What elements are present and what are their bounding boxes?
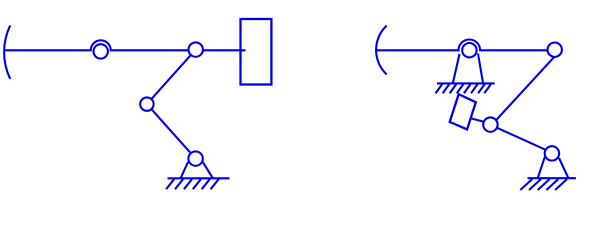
mechanism 1: joint circle C (140, 97, 153, 110)
mechanism 1: pivot circle A (94, 44, 108, 58)
mechanism 1: slider block rectangle (241, 19, 272, 85)
mechanism 2 (right): input rotation arc (376, 26, 387, 75)
mechanism 2: ground triangle legs at T (538, 156, 569, 178)
mechanism 2: link S-T (491, 125, 553, 153)
mechanism 2: joint circle S (483, 117, 497, 131)
mechanism 1 (left): input rotation arc (4, 25, 10, 79)
mechanism 1: ground hatching at D (166, 179, 219, 189)
mechanism 1: ground baseline at D (168, 177, 230, 179)
mechanism 2: connector from slider block to S (472, 119, 491, 124)
mechanism 2: ground baseline at T (528, 177, 576, 179)
mechanism 2: ground baseline at P (437, 82, 495, 84)
mechanism 2: ground hatching at P (436, 84, 491, 93)
mechanism 1: joint circle B (189, 42, 203, 56)
mechanism 2: grounded pivot circle P (462, 43, 476, 57)
mechanism 1: horizontal link with hump over pivot A (4, 40, 246, 50)
mechanism 2: ground hatching at T (520, 179, 567, 190)
mechanism 2: joint circle R (548, 43, 562, 57)
mechanism 2: link R-S (491, 51, 559, 125)
mechanism 1: link C-D (147, 104, 196, 159)
mechanism 2: horizontal link with hump over pivot P (376, 39, 556, 50)
mechanism 2: rotated slider block rectangle (450, 94, 476, 129)
mechanism 2: ground triangle legs at P (453, 54, 483, 84)
mechanism 1: ground triangle legs at D (181, 162, 213, 178)
mechanism 1: link B-C (147, 50, 196, 105)
mechanism 2: grounded joint circle T (545, 146, 559, 160)
mechanism 1: grounded joint circle D (188, 151, 202, 165)
